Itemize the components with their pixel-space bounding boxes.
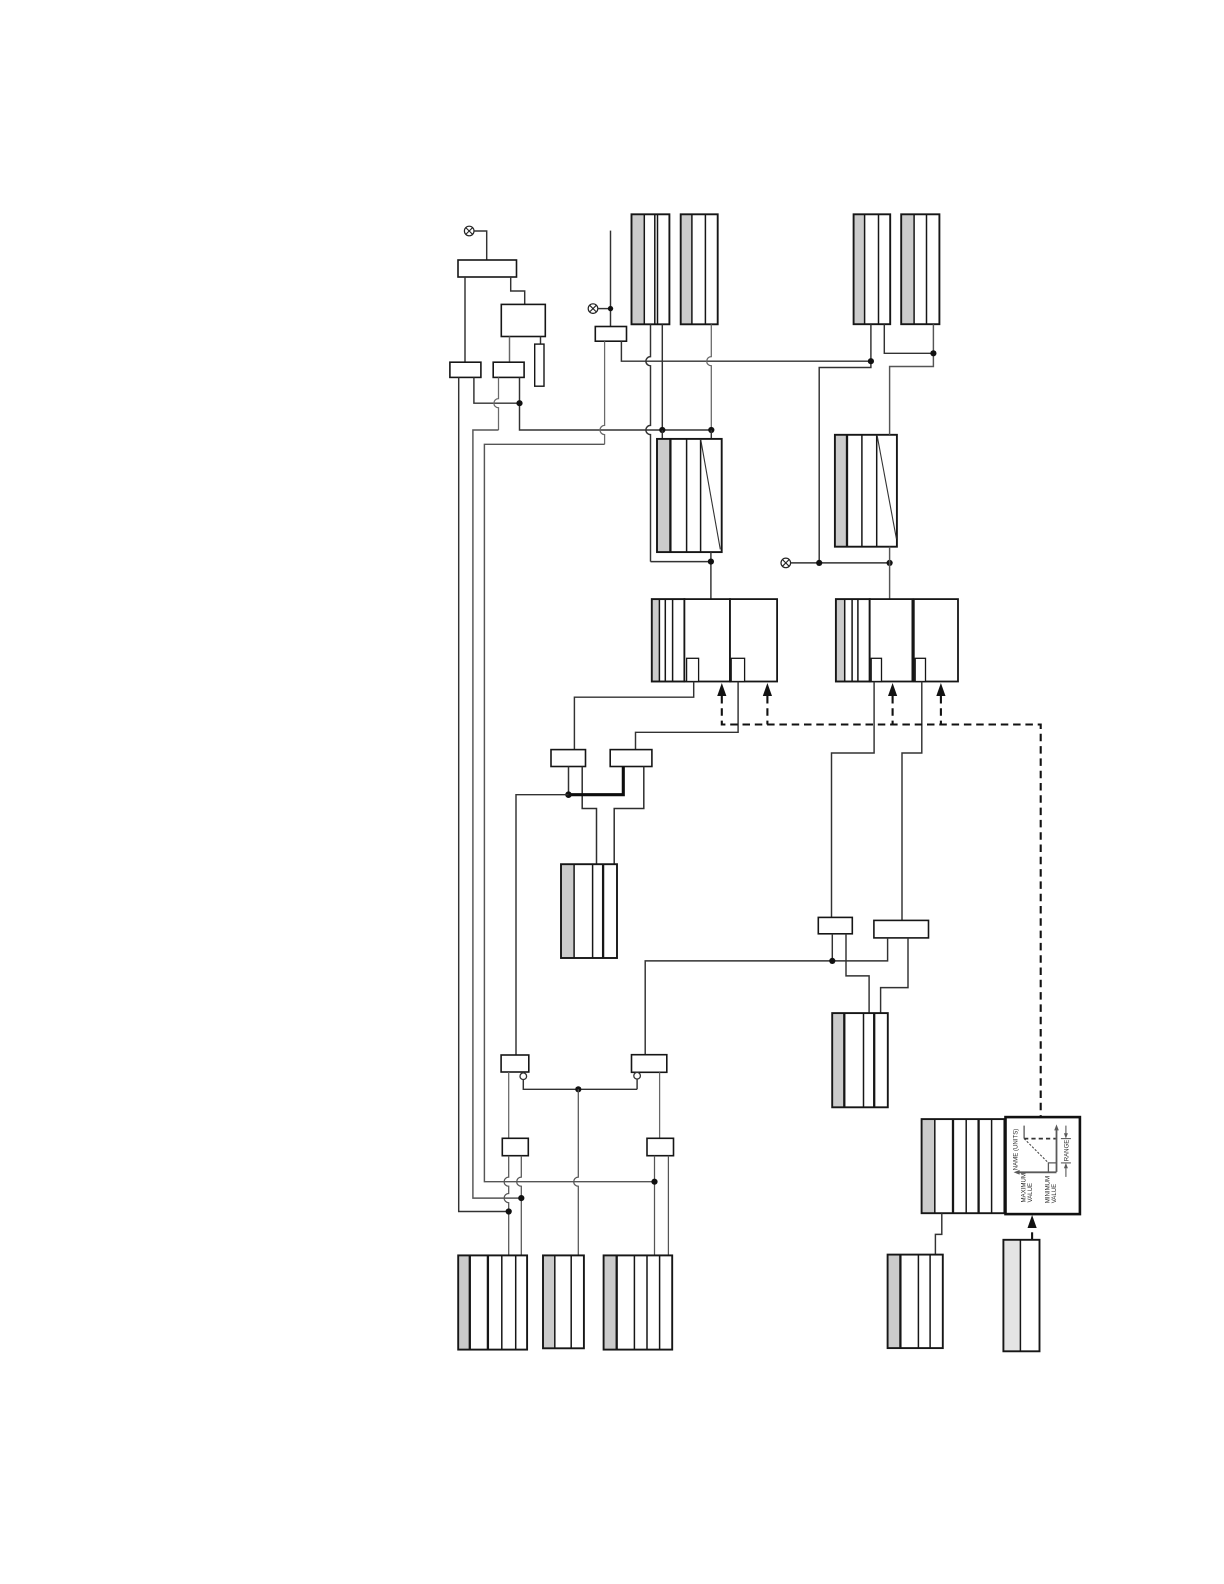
svg-text:RANGE: RANGE <box>1064 1140 1071 1162</box>
svg-text:VALUE: VALUE <box>1027 1183 1034 1203</box>
svg-text:VALUE: VALUE <box>1051 1184 1058 1204</box>
svg-text:NAME (UNITS): NAME (UNITS) <box>1013 1129 1020 1171</box>
